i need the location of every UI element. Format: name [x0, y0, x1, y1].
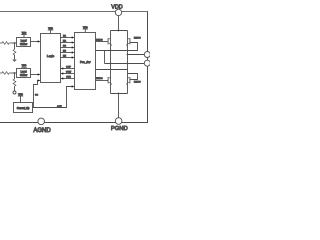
comparator U5 current trip	[14, 103, 33, 113]
wire logic to pre-driver signal 3	[61, 46, 75, 49]
wire high-side drain bar	[111, 30, 128, 32]
level shifter U2	[17, 69, 31, 78]
wire top VDD rail	[0, 11, 148, 13]
wire bottom ground rail	[0, 122, 148, 124]
resistor R4 pulldown 2	[13, 79, 16, 86]
wire OUT A to pad	[105, 63, 145, 65]
pin OUT1 pad	[144, 52, 150, 58]
wire pre-driver feedback 1 to logic	[61, 67, 75, 70]
wire logic to pre-driver signal 2	[61, 40, 75, 44]
wire R4 to terminal	[14, 86, 16, 91]
wire right-low gate loop	[128, 74, 138, 80]
wire logic to pre-driver signal 5	[61, 56, 75, 59]
svg-text:DMOS: DMOS	[134, 38, 141, 40]
wire logic to pre-driver signal 1	[61, 35, 75, 39]
wire left leg between FETs	[110, 51, 112, 78]
wire pre-driver feedback 2 to logic	[61, 72, 75, 75]
svg-text:DMOS: DMOS	[134, 81, 141, 83]
svg-text:Logic: Logic	[47, 54, 55, 58]
wire R2 to ground	[14, 55, 16, 59]
wire gate drive Q3	[96, 80, 109, 82]
transistor Q3 DMOS low-side left	[96, 77, 112, 94]
pin PGND pad	[115, 118, 122, 125]
svg-text:DMOS: DMOS	[96, 78, 103, 80]
svg-text:VDD: VDD	[18, 94, 23, 96]
wire tap to lower output	[104, 51, 106, 64]
wire pre-driver feedback 3 to logic	[61, 77, 75, 80]
wire right boundary	[147, 12, 149, 123]
node junction Q1 source	[110, 50, 112, 52]
wire current trip to pre-driver	[33, 85, 75, 108]
wire right-low gate feed	[96, 69, 128, 71]
wire pulldown 2	[14, 73, 16, 79]
pin AGND pad	[38, 118, 45, 125]
node input1 junction	[14, 42, 16, 44]
svg-text:VDD: VDD	[111, 5, 122, 11]
power VDD symbol above logic U3	[48, 28, 54, 34]
wire pulldown 1	[14, 43, 16, 50]
transistor Q1 DMOS high-side left	[96, 31, 112, 51]
node open terminal below R4	[13, 91, 16, 94]
ground AGND symbol 1	[12, 60, 17, 62]
svg-text:PGND: PGND	[111, 126, 128, 132]
wire logic to pre-driver signal 4	[61, 51, 75, 54]
level shifter U1	[17, 38, 31, 47]
svg-text:Pre_drv: Pre_drv	[80, 60, 91, 64]
svg-text:AGND: AGND	[33, 128, 51, 134]
power VDD symbol above pre-driver U4	[83, 27, 89, 33]
wire right leg between FETs	[127, 55, 129, 78]
resistor R3 input 2 series	[0, 72, 11, 75]
svg-text:OC: OC	[35, 95, 39, 97]
wire low-side source bar	[111, 93, 128, 95]
svg-text:Current_trip: Current_trip	[17, 107, 30, 110]
wire input1 to level shifter	[11, 42, 17, 44]
node input2 junction	[14, 72, 16, 74]
transistor Q4 DMOS low-side right	[126, 77, 141, 94]
logic block U3	[41, 34, 61, 83]
power VDD symbol above current trip U5	[18, 94, 24, 103]
svg-text:Shifter: Shifter	[20, 43, 27, 46]
pre-driver U4	[75, 33, 96, 90]
transistor Q2 DMOS high-side right	[126, 31, 141, 55]
wire U1 output arrow to logic	[31, 41, 39, 43]
wire gate drive Q2 from pre-driver	[96, 43, 138, 51]
wire current trip to logic	[34, 81, 39, 108]
wire U2 output arrow to logic	[31, 74, 39, 76]
power VDD symbol above level shifter U1	[21, 33, 27, 38]
resistor R2 pulldown 1	[13, 50, 16, 55]
wire input2 to level shifter	[11, 72, 17, 74]
resistor R1 input 1 series	[0, 42, 11, 45]
svg-text:Shifter: Shifter	[20, 74, 27, 77]
wire gate drive Q1	[96, 41, 109, 43]
wire OUT B to pad	[128, 54, 145, 56]
pin VDD pad	[118, 16, 120, 31]
wire PGND stem	[118, 94, 120, 119]
pin OUT2 pad	[144, 60, 150, 66]
power VDD symbol above level shifter U2	[21, 65, 27, 68]
